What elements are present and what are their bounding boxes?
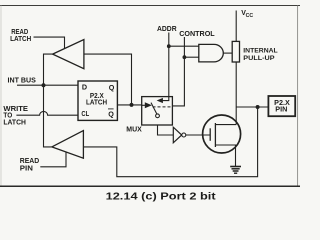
svg-text:LATCH: LATCH <box>10 34 31 43</box>
mux internal: top select line and arrowhead <box>162 97 169 101</box>
junction: pin node <box>256 105 260 109</box>
svg-text:CL: CL <box>81 109 89 118</box>
latch: P2.X LATCH box <box>78 81 117 120</box>
buffer: read pin (triangle) <box>52 131 84 159</box>
resistor: INTERNAL PULL-UP <box>232 41 239 62</box>
svg-text:MUX: MUX <box>126 124 142 133</box>
wire: Q output to MUX <box>117 104 141 106</box>
wire: INT BUS to D input <box>17 84 78 86</box>
buffer: read latch (triangle) <box>53 40 84 69</box>
wire: pin feedback to read pin buffer <box>83 107 257 177</box>
wire: Vcc stem <box>235 11 237 42</box>
wire: READ PIN enable <box>40 152 66 167</box>
wire: inverter output to gate <box>186 134 210 136</box>
svg-text:PIN: PIN <box>275 107 287 114</box>
wire: CONTROL to AND input <box>184 56 198 58</box>
transistor: gate bar <box>209 128 211 141</box>
wire: FET source to ground <box>215 145 235 166</box>
svg-text:INT BUS: INT BUS <box>8 76 37 85</box>
wire: pull-up to drain vertical <box>235 62 237 125</box>
svg-text:PULL-UP: PULL-UP <box>243 55 275 62</box>
inverter <box>173 127 181 143</box>
wire: WRITE TO LATCH to CL (with hop) <box>16 111 78 115</box>
svg-text:D: D <box>82 83 87 92</box>
mux internal: pole circle <box>156 114 160 118</box>
svg-text:12.14 (c) Port 2 bit: 12.14 (c) Port 2 bit <box>106 192 217 203</box>
transistor: FET circle <box>203 115 241 153</box>
and-gate <box>199 44 224 62</box>
svg-text:ADDR: ADDR <box>157 24 177 33</box>
wire: internal bus vertical <box>44 54 53 147</box>
P2.X PIN box <box>268 96 295 116</box>
ground <box>230 166 241 168</box>
wire: read latch buffer input from Q node <box>84 54 132 105</box>
junction: INT BUS node <box>42 83 46 87</box>
mux internal: dashed select position <box>153 106 173 108</box>
wire: node to P2.X pin <box>236 106 268 108</box>
transistor: channel bar <box>214 123 216 147</box>
svg-text:CC: CC <box>246 13 254 19</box>
transistor: drain <box>215 124 236 126</box>
wire: CONTROL vertical to MUX select <box>172 37 184 106</box>
wire: MUX pole to inverter <box>158 118 174 135</box>
svg-text:CONTROL: CONTROL <box>179 29 215 38</box>
svg-text:LATCH: LATCH <box>86 97 107 106</box>
wire: ADDR to AND input <box>169 45 199 47</box>
svg-text:PIN: PIN <box>20 163 33 172</box>
junction: Q node <box>130 103 134 107</box>
svg-text:Q: Q <box>108 109 114 118</box>
mux internal: wiper <box>151 103 157 115</box>
mux box <box>142 97 173 125</box>
mux internal: left input line and arrowhead <box>142 104 145 106</box>
svg-text:LATCH: LATCH <box>3 118 26 127</box>
svg-text:Q: Q <box>109 83 115 92</box>
wire: AND output to pull-up <box>223 52 232 54</box>
svg-text:INTERNAL: INTERNAL <box>243 47 277 54</box>
wire: ADDR vertical <box>168 33 170 97</box>
wire: READ LATCH enable <box>34 37 65 49</box>
junction: CONTROL node <box>183 55 187 59</box>
junction: ADDR node <box>167 44 171 48</box>
